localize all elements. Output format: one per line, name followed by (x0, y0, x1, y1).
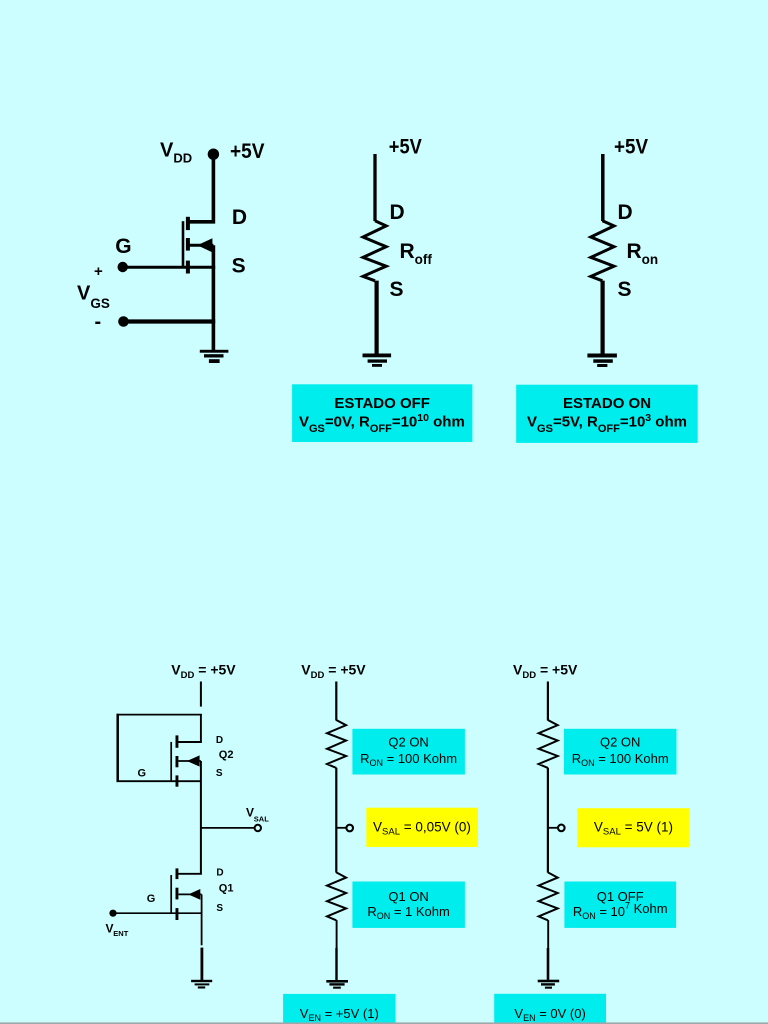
VSAL value box (yellow, right) (577, 808, 689, 847)
wire gate/source horizontal (123, 266, 216, 269)
wire Q1 source down (201, 894, 203, 945)
wire VENT to gate/source (113, 912, 202, 914)
wire resistor to ground (375, 281, 379, 354)
wire to ground thick (right) (547, 948, 550, 980)
svg-text:G: G (115, 235, 131, 258)
wire VSAL tap (201, 827, 254, 829)
svg-text:ESTADO OFF: ESTADO OFF (334, 395, 430, 412)
VSAL value box (yellow, middle) (366, 808, 478, 847)
wire VSAL stub (right) (548, 827, 558, 829)
transistor Q1 (NMOS) (171, 868, 201, 920)
svg-text:+5V: +5V (230, 140, 265, 163)
wire to ground thick (middle) (335, 948, 337, 980)
ESTADO OFF box (292, 384, 472, 442)
resistor Roff (363, 221, 386, 281)
svg-text:D: D (216, 868, 223, 879)
wire middle column (335, 768, 337, 873)
svg-text:S: S (216, 768, 223, 779)
resistor Ron (591, 221, 614, 281)
svg-text:Q2: Q2 (219, 749, 234, 761)
svg-text:+: + (94, 263, 103, 280)
svg-text:G: G (138, 767, 147, 779)
svg-text:S: S (232, 255, 246, 278)
svg-text:S: S (216, 903, 223, 914)
svg-text:S: S (390, 278, 404, 301)
resistor Q2-on (right) (539, 720, 558, 768)
wire right column (547, 768, 549, 873)
svg-text:Q2 ON: Q2 ON (388, 735, 428, 750)
svg-text:D: D (232, 206, 247, 229)
node VSAL ring (right) (558, 825, 565, 832)
svg-text:-: - (95, 311, 102, 333)
Q2 ON box (middle) (352, 729, 465, 775)
wire +5V to resistor (601, 154, 605, 221)
transistor M1 (NMOS) (183, 217, 213, 274)
svg-text:Q2 ON: Q2 ON (600, 735, 640, 750)
Q2 ON box (right) (564, 729, 677, 775)
wire below resistor (right) (547, 920, 549, 948)
svg-text:ENT: ENT (113, 929, 128, 938)
node VSAL open terminal (255, 825, 261, 831)
wire VDD stub (200, 682, 202, 707)
ground (bottom middle) (326, 980, 348, 989)
svg-text:D: D (618, 201, 633, 224)
terminal + dot (118, 262, 128, 272)
node VENT dot (109, 910, 116, 917)
wire VDD to Q2 drain (176, 715, 202, 742)
wire Q1 drain (176, 873, 202, 875)
svg-text:+5V: +5V (614, 135, 648, 158)
wire feedback/source bottom (117, 780, 202, 782)
wire to ground (thick) (200, 948, 203, 981)
Q1 ON box (middle) (352, 882, 465, 928)
wire VSAL stub (middle) (336, 827, 346, 829)
VEN box (middle) (283, 994, 396, 1024)
Q1 OFF box (right) (564, 882, 676, 928)
svg-text:G: G (147, 893, 156, 905)
svg-text:SAL: SAL (254, 815, 269, 824)
resistor Q2-on (middle) (327, 720, 346, 768)
svg-text:+5V: +5V (389, 135, 422, 158)
svg-text:ESTADO ON: ESTADO ON (563, 395, 651, 412)
svg-text:Q1 ON: Q1 ON (388, 889, 428, 904)
svg-text:S: S (618, 278, 632, 301)
svg-text:D: D (216, 735, 223, 746)
wire below resistor (middle) (336, 920, 338, 948)
wire source down (212, 245, 216, 350)
wire VDD down (547, 682, 549, 721)
node VSAL ring (middle) (346, 825, 353, 832)
ground (left circuit) (200, 350, 229, 363)
node VDD dot (208, 149, 219, 160)
ground (right circuit) (587, 354, 617, 368)
wire +5V to resistor (373, 154, 376, 221)
ground (bottom left) (191, 980, 212, 989)
terminal - dot (118, 316, 129, 327)
bottom page edge (0, 1022, 768, 1024)
ground (middle circuit) (363, 354, 392, 367)
resistor Q1-off (right) (539, 872, 558, 920)
transistor Q2 (NMOS) (171, 735, 201, 786)
wire feedback left (116, 714, 119, 782)
svg-text:Q1: Q1 (219, 883, 234, 895)
resistor Q1-on (middle) (327, 872, 346, 920)
wire - terminal to source column (124, 319, 216, 323)
wire VDD down (335, 682, 337, 721)
wire Q2 source down to Q1 drain (200, 761, 202, 874)
svg-text:D: D (390, 201, 405, 224)
ground (bottom right) (538, 980, 560, 989)
VEN box (right) (494, 994, 606, 1024)
ESTADO ON box (516, 385, 698, 443)
wire VDD to drain (187, 154, 215, 222)
wire feedback top (117, 714, 202, 716)
wire resistor to ground (600, 281, 604, 354)
